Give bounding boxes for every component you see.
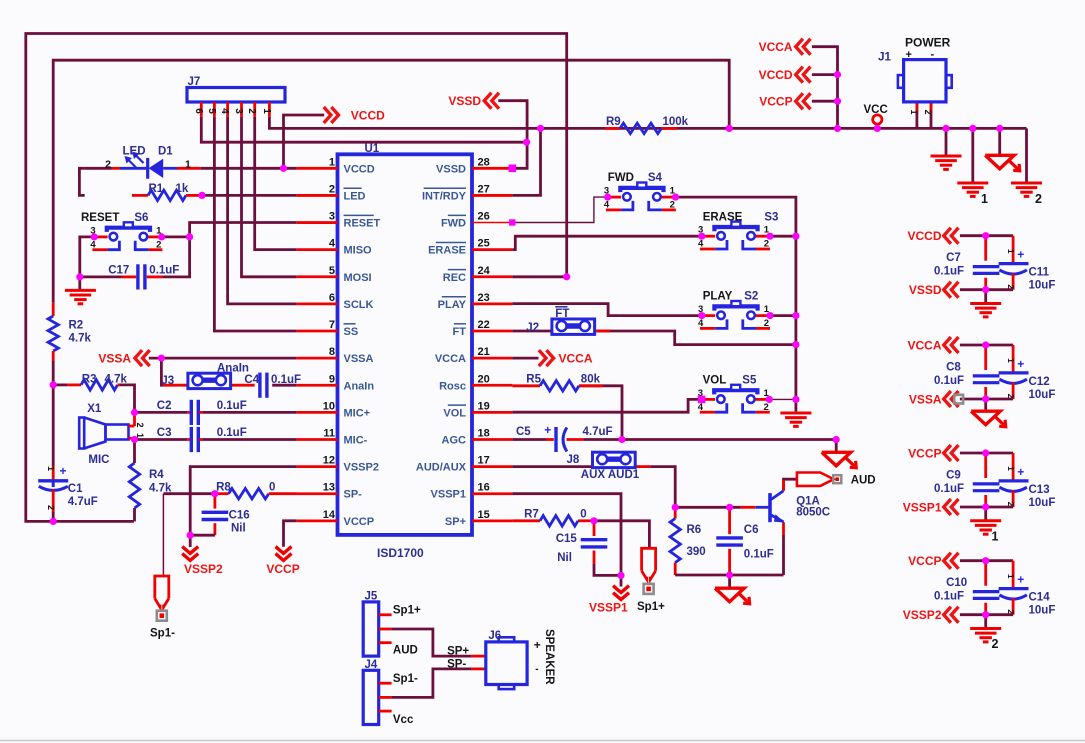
- svg-text:2: 2: [992, 637, 999, 651]
- wire C8 cap branch: [984, 345, 987, 370]
- wire S5 pin1 to bus (thin): [769, 398, 796, 400]
- svg-text:VCCA: VCCA: [435, 353, 466, 365]
- capacitor C4 0.1uF: [258, 373, 261, 398]
- svg-text:VCCA: VCCA: [559, 351, 593, 365]
- svg-text:MIC+: MIC+: [344, 407, 371, 419]
- wire R7 from U1 pin15: [512, 519, 540, 522]
- svg-text:Sp1+: Sp1+: [637, 601, 665, 613]
- IC U1 ISD1700: [338, 154, 473, 535]
- wire C6 ground stem: [728, 575, 731, 588]
- junction dots group C7: [982, 232, 989, 239]
- svg-text:AnaIn: AnaIn: [217, 362, 249, 374]
- svg-text:+: +: [1017, 573, 1024, 587]
- svg-text:VSSA: VSSA: [909, 392, 942, 406]
- resistor R7 0: [540, 516, 578, 526]
- svg-text:J7: J7: [188, 76, 201, 88]
- svg-text:VCCD: VCCD: [351, 108, 385, 122]
- U1 pin 19 stub: [472, 411, 512, 414]
- wire S6 pin1 to U1 pin3 RESET: [162, 223, 297, 237]
- wire U1 pin16 VSSP1 down: [512, 494, 621, 587]
- wire R1 to U1 pin2: [202, 194, 297, 197]
- LED D1: [85, 167, 112, 170]
- port VCCP arrow: [944, 445, 951, 461]
- wire J7 pin3 to U1 pin5 MOSI: [242, 117, 297, 277]
- wire VCCD tap: [812, 73, 838, 76]
- wire VCCP group top: [960, 452, 1013, 455]
- wire J7 pin5 to U1 pin7 SS: [214, 117, 296, 331]
- svg-text:Nil: Nil: [557, 552, 572, 564]
- U1 pin 27 stub: [472, 194, 512, 197]
- pushbutton S3 ERASE: [702, 235, 715, 238]
- svg-text:1: 1: [46, 466, 56, 471]
- wire VCCD group top: [960, 234, 1013, 237]
- wire VCC rail y=128 from J7 pin1 to power grounds: [269, 117, 1026, 129]
- U1 pin 17 stub: [472, 465, 512, 468]
- U1 pin 18 stub: [472, 438, 512, 441]
- svg-text:C1: C1: [68, 483, 83, 495]
- jumper J8 AUX: [593, 452, 636, 467]
- svg-text:22: 22: [478, 319, 490, 331]
- U1 pin 11 stub: [297, 438, 338, 441]
- svg-text:100k: 100k: [663, 116, 689, 128]
- svg-text:+: +: [1017, 465, 1024, 479]
- wire R6 top stub: [674, 507, 677, 518]
- port VSSP1 arrow: [944, 499, 951, 515]
- wire VSSP2 group bottom: [960, 613, 1013, 616]
- port VCCA arrow pin21: [546, 350, 553, 366]
- svg-text:R4: R4: [149, 469, 164, 481]
- svg-text:4.7k: 4.7k: [105, 374, 128, 386]
- jumper J2 FT: [552, 319, 595, 334]
- port VCCP arrow: [276, 554, 292, 561]
- port VCCA arrow: [944, 337, 951, 353]
- svg-text:28: 28: [478, 156, 490, 168]
- wire U1 pin24 REC to outer loop: [512, 275, 566, 278]
- capacitor C5 4.7uF polarized: [554, 427, 557, 452]
- svg-text:27: 27: [478, 183, 490, 195]
- svg-text:VSSA: VSSA: [98, 351, 131, 365]
- port VSSP2 arrow: [944, 607, 951, 623]
- resistor R1 1k: [132, 194, 148, 197]
- U1 pin 1 stub: [297, 167, 338, 170]
- svg-text:4.7k: 4.7k: [69, 333, 92, 345]
- U1 pin 8 stub: [297, 357, 338, 360]
- svg-text:SS: SS: [344, 326, 359, 338]
- svg-text:S2: S2: [744, 291, 758, 303]
- U1 pin 3 stub: [297, 221, 338, 224]
- wire analog ground stem: [835, 440, 838, 453]
- wire VSSP2 junction down to arrow: [189, 535, 192, 547]
- port VSSA arrow: [135, 350, 142, 366]
- svg-text:VCCD: VCCD: [759, 68, 793, 82]
- wire S6 pin3 to ground / C17: [80, 237, 94, 290]
- svg-text:0.1uF: 0.1uF: [271, 374, 301, 386]
- svg-text:AnaIn: AnaIn: [344, 380, 375, 392]
- port VCCD arrow: [944, 228, 951, 244]
- capacitor C16 Nil: [213, 494, 216, 509]
- svg-text:2: 2: [46, 505, 56, 510]
- analog ground triangle: [822, 452, 851, 466]
- svg-text:VOL: VOL: [703, 375, 727, 387]
- ports VCCA VCCD VCCP top-right: [796, 39, 803, 55]
- svg-text:16: 16: [478, 482, 490, 494]
- capacitor C3 0.1uF: [187, 438, 190, 441]
- svg-text:FT: FT: [555, 308, 569, 320]
- ground below C10: [984, 615, 987, 629]
- svg-text:17: 17: [478, 455, 490, 467]
- wire R5 down to AGC net: [579, 386, 622, 440]
- svg-text:12: 12: [323, 455, 335, 467]
- svg-text:VSSP1: VSSP1: [589, 601, 628, 615]
- svg-text:4: 4: [90, 239, 96, 250]
- svg-text:+: +: [60, 464, 67, 478]
- port VSSA arrow: [944, 391, 951, 407]
- wire U1 pin21 VCCA to arrow: [512, 357, 538, 360]
- U1 pin 2 stub: [297, 194, 338, 197]
- junction squares: [509, 165, 517, 173]
- svg-text:AUX AUD1: AUX AUD1: [581, 469, 640, 481]
- pushbutton S2 PLAY: [702, 314, 715, 317]
- svg-text:13: 13: [323, 482, 335, 494]
- capacitor C10 0.1uF: [973, 590, 1000, 593]
- wire U1 pin19 VOL to S5 pin3: [512, 399, 701, 412]
- svg-text:LED: LED: [344, 190, 366, 202]
- port VSSD arrow: [484, 93, 491, 109]
- wire C1 bottom to bottom rail: [52, 512, 55, 521]
- svg-text:10uF: 10uF: [1029, 280, 1056, 292]
- microphone X1: [79, 418, 84, 449]
- svg-text:Sp1-: Sp1-: [393, 673, 418, 685]
- wire C9 cap branch: [984, 453, 987, 478]
- svg-text:10uF: 10uF: [1029, 497, 1056, 509]
- svg-text:FT: FT: [453, 326, 467, 338]
- svg-text:R3: R3: [82, 374, 97, 386]
- svg-text:8: 8: [329, 346, 335, 358]
- ground under S5 bus: [780, 412, 811, 415]
- svg-text:4: 4: [698, 402, 704, 413]
- resistor R6 390: [670, 519, 680, 563]
- svg-text:VCCD: VCCD: [344, 163, 375, 175]
- wire R7 node to Sp1+ plug: [594, 521, 649, 549]
- port VSSD arrow: [944, 282, 951, 298]
- capacitor C15 Nil: [581, 538, 608, 541]
- svg-text:R9: R9: [606, 116, 621, 128]
- svg-text:S3: S3: [764, 211, 778, 223]
- svg-text:C9: C9: [946, 469, 961, 481]
- wire C15 bottom to VSSP1 wire: [593, 551, 596, 565]
- svg-text:C11: C11: [1029, 267, 1050, 279]
- svg-text:8050C: 8050C: [796, 506, 830, 518]
- wire J3 pin2 to C4: [231, 384, 255, 387]
- wire J4 pin2 to SP-: [392, 669, 472, 698]
- U1 pin 20 stub: [472, 384, 512, 387]
- wire Q1 emitter lead: [782, 523, 785, 536]
- wire R9 VCC segment colors: [605, 127, 620, 130]
- svg-text:VSSP1: VSSP1: [431, 489, 466, 501]
- svg-text:VOL: VOL: [443, 407, 466, 419]
- svg-text:VCCP: VCCP: [908, 446, 941, 460]
- svg-text:C3: C3: [157, 427, 172, 439]
- svg-text:19: 19: [478, 400, 490, 412]
- svg-text:R2: R2: [69, 320, 84, 332]
- svg-text:7: 7: [329, 319, 335, 331]
- svg-text:AUD: AUD: [393, 644, 418, 656]
- wire R6 bottom stub: [674, 563, 677, 576]
- svg-text:D1: D1: [158, 146, 173, 158]
- svg-text:18: 18: [478, 428, 490, 440]
- port VSSP1 arrow: [613, 593, 629, 600]
- svg-text:-: -: [535, 664, 538, 675]
- svg-text:AGC: AGC: [442, 435, 467, 447]
- capacitor C9 0.1uF: [973, 482, 1000, 485]
- U1 pin 7 stub: [297, 330, 338, 333]
- wire C7 cap branch: [984, 236, 987, 261]
- svg-text:390: 390: [687, 546, 706, 558]
- wire C4 to U1 pin9 AnaIn: [272, 384, 297, 387]
- svg-text:11: 11: [323, 428, 335, 440]
- svg-text:C6: C6: [744, 524, 759, 536]
- svg-text:VCCA: VCCA: [907, 338, 941, 352]
- svg-text:1: 1: [1006, 249, 1016, 254]
- wire VCCA/VCCD/VCCP feed bus: [812, 47, 838, 129]
- U1 pin 10 stub: [297, 411, 338, 414]
- svg-text:4.7k: 4.7k: [149, 482, 172, 494]
- svg-text:C15: C15: [556, 533, 578, 545]
- svg-text:S5: S5: [742, 375, 757, 387]
- svg-text:POWER: POWER: [905, 36, 951, 50]
- svg-text:VSSP1: VSSP1: [903, 500, 942, 514]
- svg-text:VSSP2: VSSP2: [903, 608, 942, 622]
- svg-text:C5: C5: [516, 426, 531, 438]
- svg-text:0.1uF: 0.1uF: [217, 427, 247, 439]
- svg-text:0.1uF: 0.1uF: [934, 591, 964, 603]
- svg-text:PLAY: PLAY: [438, 299, 467, 311]
- svg-text:0.1uF: 0.1uF: [934, 375, 964, 387]
- svg-text:C13: C13: [1029, 484, 1050, 496]
- wire C15 top lead: [593, 521, 596, 536]
- svg-text:1: 1: [1006, 466, 1016, 471]
- resistor R3 4.7k: [67, 383, 81, 386]
- svg-text:4: 4: [604, 200, 610, 211]
- svg-text:5: 5: [329, 265, 335, 277]
- svg-text:2: 2: [764, 239, 769, 250]
- no-connect marker VSSA: [954, 395, 963, 404]
- resistor R4 4.7k: [129, 463, 139, 508]
- wire U1 pin26 FWD to S4 pin3 (thin): [512, 197, 607, 222]
- svg-text:C10: C10: [946, 577, 967, 589]
- svg-text:Rosc: Rosc: [439, 380, 466, 392]
- svg-text:VSSD: VSSD: [436, 163, 466, 175]
- svg-text:26: 26: [478, 211, 490, 223]
- pushbutton S4 FWD: [608, 196, 621, 199]
- wire C17 row: [80, 275, 122, 278]
- svg-text:0.1uF: 0.1uF: [149, 264, 179, 276]
- svg-text:C2: C2: [157, 400, 172, 412]
- svg-text:VCCD: VCCD: [907, 229, 941, 243]
- svg-text:4: 4: [698, 239, 704, 250]
- connector J1 POWER: [904, 60, 946, 102]
- svg-text:VCCP: VCCP: [344, 516, 375, 528]
- capacitor C17 0.1uF: [122, 275, 137, 278]
- wire C2 to U1 pin10: [202, 411, 296, 414]
- resistor R5 80k: [540, 381, 579, 391]
- wire J8 right to Q1 base node: [635, 465, 650, 468]
- svg-text:FWD: FWD: [441, 218, 466, 230]
- transistor Q1A 8050C: [768, 493, 772, 522]
- svg-text:S6: S6: [134, 212, 148, 224]
- pushbutton S6 RESET: [94, 235, 107, 238]
- svg-text:FWD: FWD: [608, 172, 634, 184]
- svg-text:1: 1: [185, 159, 191, 171]
- svg-text:9: 9: [329, 373, 335, 385]
- svg-text:1: 1: [1006, 574, 1016, 579]
- svg-text:MIC-: MIC-: [344, 435, 368, 447]
- wire VSSA arrow to U1 pin8: [149, 357, 297, 360]
- svg-text:2: 2: [105, 159, 111, 171]
- svg-text:LED: LED: [123, 146, 146, 158]
- svg-text:2: 2: [1035, 192, 1042, 206]
- wire bus to switch ground: [795, 399, 798, 411]
- wire D1-R1 left loop: [79, 168, 84, 195]
- U1 pin 22 stub: [472, 330, 512, 333]
- wire J1 pin1 lead: [916, 102, 919, 128]
- svg-text:R8: R8: [216, 481, 231, 493]
- svg-text:+: +: [544, 423, 551, 437]
- wire base node rail: [675, 506, 740, 509]
- svg-text:3: 3: [233, 108, 244, 114]
- svg-text:MISO: MISO: [344, 245, 373, 257]
- svg-text:2: 2: [764, 318, 769, 329]
- testpoint Sp1+ plug: [642, 548, 656, 571]
- wire VSSA group bottom: [960, 398, 1013, 401]
- U1 pin 23 stub: [472, 302, 512, 305]
- U1 pin 13 stub: [297, 492, 338, 495]
- U1 pin 24 stub: [472, 275, 512, 278]
- capacitor C12 10uF electrolytic: [1012, 345, 1015, 372]
- svg-text:VSSP2: VSSP2: [344, 462, 379, 474]
- wire VCCD arrow to U1 pin1: [284, 115, 325, 168]
- svg-text:R1: R1: [149, 183, 164, 195]
- wire J3 pin1 stub: [164, 384, 188, 387]
- svg-text:SP-: SP-: [447, 659, 466, 671]
- svg-text:0: 0: [269, 481, 275, 493]
- svg-text:2: 2: [764, 402, 769, 413]
- wire C5 right to analog ground: [567, 438, 585, 441]
- jumper J3 AnaIn: [188, 373, 231, 388]
- speaker J6: [472, 655, 486, 658]
- wire R3 right down to MIC+ node: [120, 385, 135, 413]
- svg-text:C7: C7: [946, 252, 961, 264]
- svg-text:MIC: MIC: [88, 454, 109, 466]
- wire Q1 collector to AUD tag: [784, 479, 797, 490]
- wire MIC- node to C3: [135, 438, 188, 441]
- capacitor C8 0.1uF: [973, 374, 1000, 377]
- U1 pin 5 stub: [297, 275, 338, 278]
- port VCC circle: [873, 115, 882, 124]
- svg-text:4.7uF: 4.7uF: [583, 426, 613, 438]
- wire R8 junction left to Sp1- plug: [163, 492, 215, 495]
- capacitor C11 10uF electrolytic: [1012, 236, 1015, 263]
- wire R4 bottom to REC rail: [133, 508, 136, 521]
- svg-text:1: 1: [1006, 358, 1016, 363]
- svg-text:REC: REC: [443, 272, 466, 284]
- svg-text:1: 1: [909, 109, 919, 114]
- U1 pin 14 stub: [297, 519, 338, 522]
- svg-text:VCCP: VCCP: [759, 95, 792, 109]
- connector J7: [187, 88, 285, 103]
- svg-text:RESET: RESET: [81, 212, 119, 224]
- svg-text:25: 25: [478, 238, 490, 250]
- junction dots: [280, 165, 287, 172]
- U1 pin 15 stub: [472, 519, 512, 522]
- connector J5: [363, 602, 379, 656]
- wire VCCP tap: [812, 100, 838, 103]
- svg-text:AUD/AUX: AUD/AUX: [416, 462, 467, 474]
- svg-text:Vcc: Vcc: [393, 714, 414, 726]
- wire S2 pin1 to bus: [770, 314, 796, 317]
- svg-text:2: 2: [329, 183, 335, 195]
- wire VCCA group top: [960, 344, 1013, 347]
- junction dots group C8: [982, 341, 989, 348]
- svg-text:SP-: SP-: [344, 489, 363, 501]
- wire S4 pin1 to switch bus: [676, 197, 796, 399]
- svg-text:23: 23: [478, 292, 490, 304]
- svg-text:1k: 1k: [176, 183, 189, 195]
- wire J1 pin2 lead: [930, 102, 933, 128]
- svg-text:VCCA: VCCA: [759, 40, 793, 54]
- junction dots group C9: [982, 449, 989, 456]
- wire J7 pin4 to U1 pin6 SCLK: [228, 117, 297, 304]
- svg-text:24: 24: [478, 265, 491, 277]
- svg-text:X1: X1: [87, 403, 102, 415]
- svg-text:0.1uF: 0.1uF: [934, 483, 964, 495]
- svg-text:ERASE: ERASE: [703, 211, 743, 223]
- capacitor C1 4.7uF polarized: [52, 466, 55, 480]
- svg-text:15: 15: [478, 509, 490, 521]
- wire C1 top lead: [52, 385, 55, 466]
- svg-text:C14: C14: [1029, 592, 1051, 604]
- capacitor C7 0.1uF: [973, 265, 1000, 268]
- svg-text:4.7uF: 4.7uF: [68, 496, 98, 508]
- svg-text:Sp1+: Sp1+: [393, 604, 421, 616]
- U1 pin 25 stub: [472, 248, 512, 251]
- wire VSSP1 group bottom: [960, 506, 1013, 509]
- svg-text:ERASE: ERASE: [428, 245, 466, 257]
- svg-text:J1: J1: [878, 52, 891, 64]
- wire S3 pin1 to bus: [770, 235, 796, 238]
- svg-text:2: 2: [670, 200, 675, 211]
- wire VSSD y=142 from J7 pin6: [201, 117, 526, 142]
- port AUD tag: [797, 473, 834, 486]
- wire C16 bottom left jog: [213, 530, 216, 535]
- svg-text:J3: J3: [161, 375, 174, 387]
- wire R5 from U1 pin20 Rosc: [512, 384, 540, 387]
- wire MIC+ node to C2: [135, 411, 188, 414]
- svg-text:J4: J4: [365, 659, 378, 671]
- svg-text:INT/RDY: INT/RDY: [422, 190, 467, 202]
- wire U1 pin17 AUD/AUX to J8: [512, 465, 592, 468]
- wire VSSD arrow to U1 pin28: [498, 101, 527, 169]
- svg-text:SP+: SP+: [447, 646, 469, 658]
- wire R3 left: [53, 383, 67, 386]
- svg-text:1: 1: [261, 108, 272, 114]
- svg-text:-: -: [931, 49, 935, 61]
- U1 pin 4 stub: [297, 248, 338, 251]
- wire U1 pin25 ERASE to S3 pin3: [512, 236, 701, 249]
- U1 pin 26 stub: [472, 222, 512, 224]
- ground below C7: [984, 290, 987, 304]
- svg-text:J5: J5: [365, 591, 378, 603]
